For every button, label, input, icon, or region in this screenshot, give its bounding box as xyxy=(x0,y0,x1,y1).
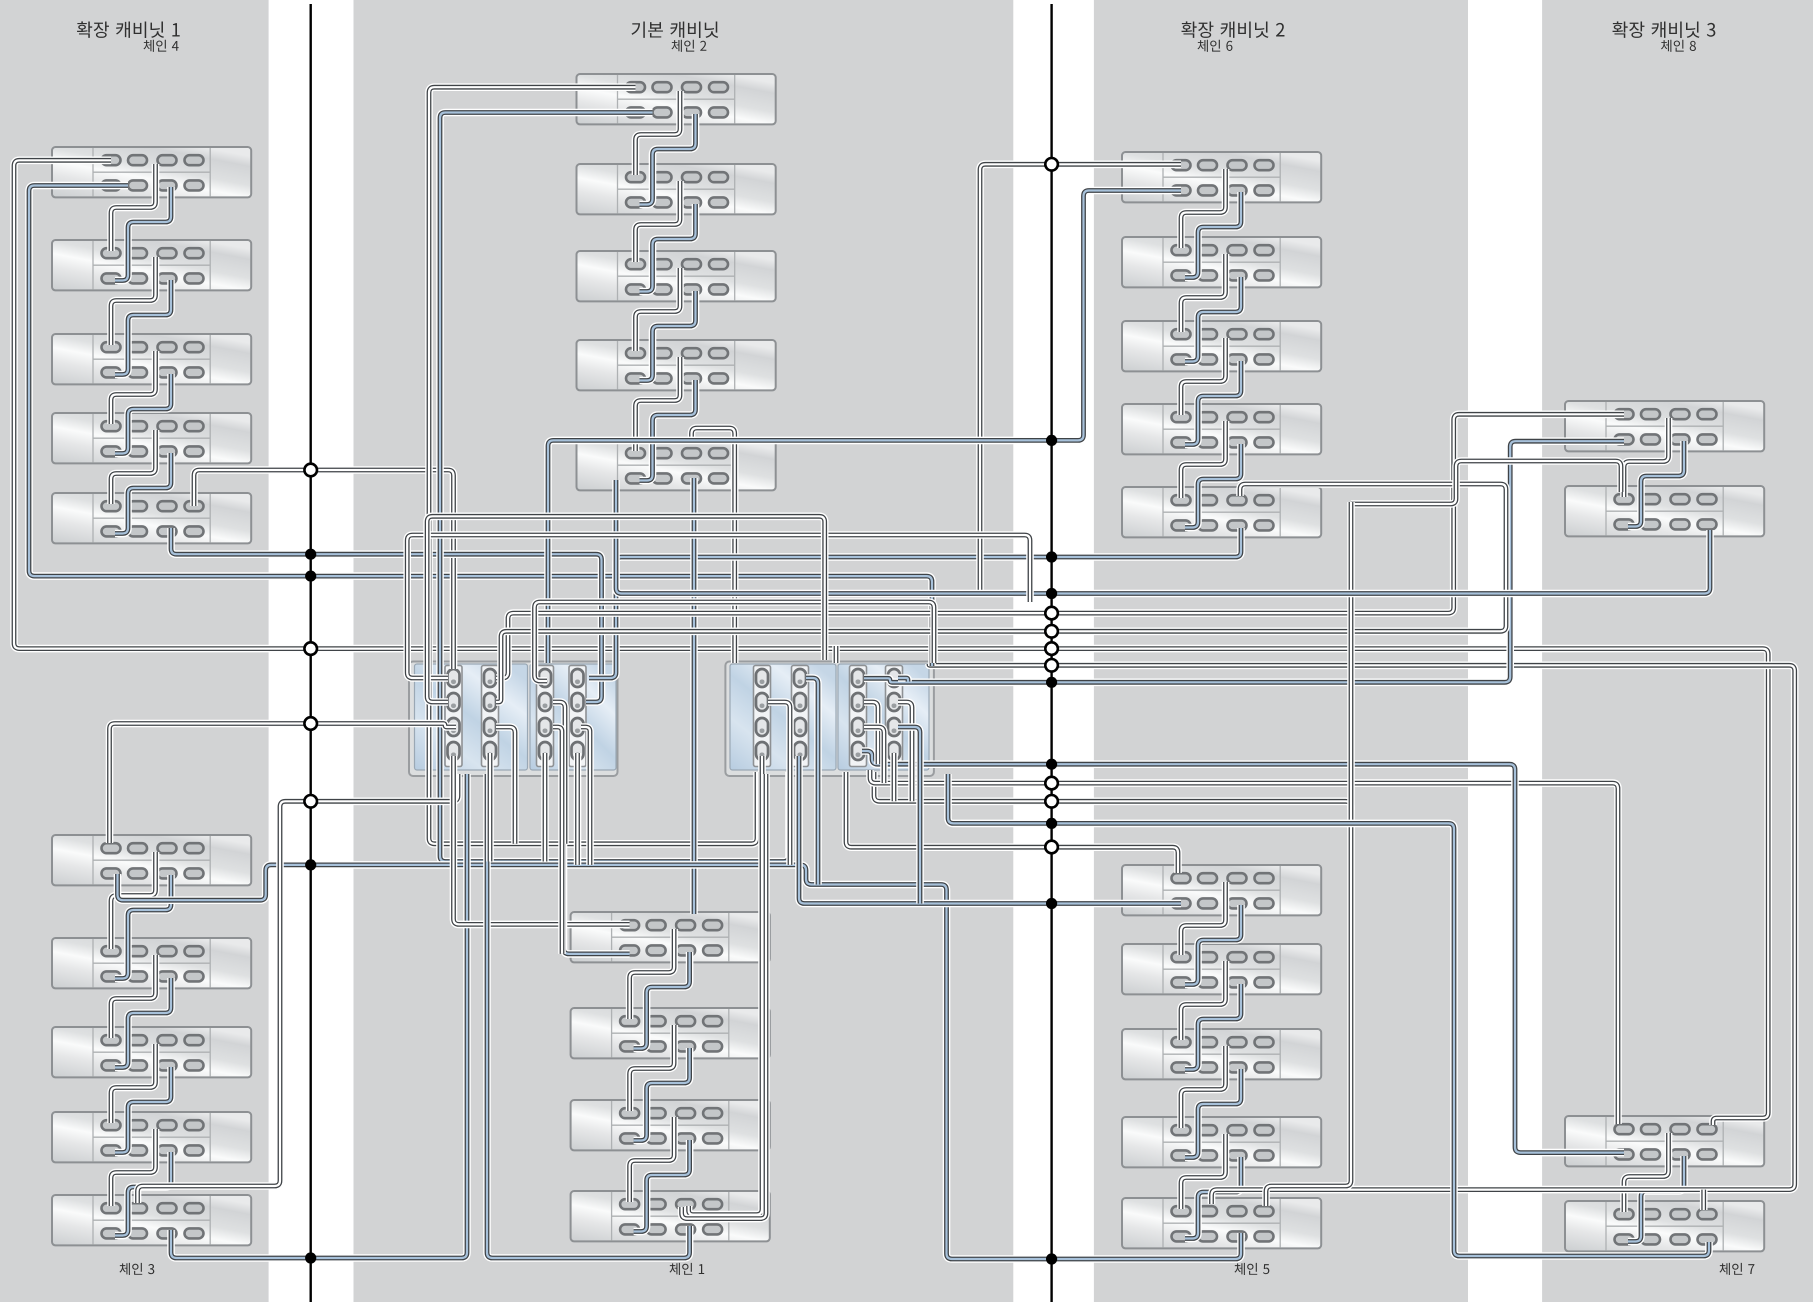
disk shelf P4-T1 xyxy=(1565,401,1764,451)
wire chain4 top B xyxy=(29,186,932,667)
junction filled dot line2 y1259 xyxy=(1046,1253,1057,1264)
cabinet boundary line 1 xyxy=(310,4,312,1302)
controller head 2 xyxy=(725,662,934,777)
disk shelf P3-T5 xyxy=(1122,487,1321,537)
wire chain8 top B xyxy=(864,441,1624,682)
disk shelf P2-B2 xyxy=(571,1008,770,1058)
controller head 1 xyxy=(409,662,618,777)
wire chain5 top A xyxy=(846,772,1178,873)
wire shelf link dark 570.6-1008 xyxy=(630,1025,675,1111)
wire shelf link dark 1122-152 xyxy=(1181,169,1226,248)
wire chain1 top B xyxy=(564,774,630,954)
junction filled dot line2 y440.4 xyxy=(1046,435,1057,446)
wire shelf link dark 576.5-164 xyxy=(636,181,681,262)
wire shelf link blue 52-835 xyxy=(115,875,171,979)
wire chain7 bottom B xyxy=(948,774,1709,1256)
disk shelf P2-T1 xyxy=(577,74,776,124)
wire shelf link dark 52-240 xyxy=(111,257,156,345)
cabinet boundary line 2 xyxy=(1050,4,1052,1302)
wire shelf link blue 1122-404 xyxy=(1185,444,1241,528)
wire shelf link dark 52-147 xyxy=(111,164,156,251)
wire chain3 top B xyxy=(118,865,1242,1259)
disk shelf P3-T2 xyxy=(1122,237,1321,287)
disk shelf P3-T3 xyxy=(1122,321,1321,371)
wire chain7 bottom A spur xyxy=(1700,1190,1708,1210)
disk shelf P3-T4 xyxy=(1122,404,1321,454)
wire port stub S3-r4 xyxy=(541,753,549,862)
wire shelf link blue 1122-1117 xyxy=(1185,1157,1241,1239)
wire chain5 bottom A2 xyxy=(874,772,1351,1206)
disk shelf P4-B2 xyxy=(1565,1201,1764,1251)
wire shelf link blue 52-240 xyxy=(115,280,171,375)
cabinet panel: base cabinet xyxy=(354,0,1014,1302)
label chain3 xyxy=(120,1263,155,1275)
wire shelf link blue 1565-401 xyxy=(1628,441,1684,527)
junction open dot line2 y801.3 xyxy=(1045,795,1058,808)
disk shelf P1-T5 xyxy=(52,493,251,543)
wire shelf link dark 52-413 xyxy=(111,430,156,504)
disk shelf P1-T1 xyxy=(52,147,251,197)
wire chain8 bottom B left xyxy=(616,480,976,594)
junction open dot line2 y648.6 xyxy=(1045,642,1058,655)
wire port stub S4-r4 xyxy=(574,753,582,865)
cabinet panel: expansion cabinet 1 xyxy=(0,0,269,1302)
wire shelf link blue 1122-944 xyxy=(1185,984,1241,1070)
disk shelf P2-B4 xyxy=(571,1191,770,1241)
wire port stub S8-r3 xyxy=(898,727,920,904)
label cab3 chain xyxy=(1661,40,1696,52)
label chain5 xyxy=(1235,1263,1270,1275)
disk shelf P1-B1 xyxy=(52,835,251,885)
wire shelf link dark 576.5-74 xyxy=(636,91,681,175)
disk shelf P1-B2 xyxy=(52,938,251,988)
wire shelf link blue 576.5-74 xyxy=(640,114,696,205)
wire port stub S2-r3 xyxy=(496,727,515,844)
disk shelf P4-T2 xyxy=(1565,486,1764,536)
disk shelf P3-B4 xyxy=(1122,1117,1321,1167)
wire chain7 top A xyxy=(870,770,1618,1124)
wire vert 1351 upper xyxy=(1347,502,1355,810)
wire port stub S8-r2 xyxy=(898,702,912,801)
wire chain1 bottom A2 xyxy=(682,774,766,1219)
wire port stub S6-r1 xyxy=(806,678,818,885)
disk shelf P2-T3 xyxy=(577,251,776,301)
wire chain6 bottom A xyxy=(496,484,1506,702)
label cab1 xyxy=(77,21,180,38)
junction filled dot line1 y554.2 xyxy=(305,549,316,560)
disk shelf P1-B3 xyxy=(52,1027,251,1077)
disk shelf P3-B3 xyxy=(1122,1029,1321,1079)
wire shelf link blue 570.6-912 xyxy=(634,952,690,1049)
wire shelf link dark 1122-237 xyxy=(1181,254,1226,332)
wire shelf link dark 52-1027 xyxy=(111,1044,156,1123)
wire port stub S2-r4 xyxy=(486,753,494,862)
wire shelf link dark 570.6-912 xyxy=(630,929,675,1019)
wire chain8 bottom A2 xyxy=(1351,461,1621,504)
wire chain2 bottom A xyxy=(692,428,735,663)
wire shelf link blue 1122-237 xyxy=(1185,277,1241,362)
junction filled dot line2 y682.3 xyxy=(1046,677,1057,688)
junction open dot line2 y847 xyxy=(1045,841,1058,854)
wire port stub S3-r3 xyxy=(553,727,562,954)
wire chain1 top A xyxy=(454,756,630,924)
wire shelf link blue 1122-1029 xyxy=(1185,1069,1241,1158)
wire port stub S5-r2 xyxy=(768,702,790,865)
wire chain3 bottom B xyxy=(171,774,467,1258)
wire shelf link dark 52-334 xyxy=(111,351,156,424)
wire chain1 bottom B xyxy=(487,774,690,1258)
disk shelf P4-B1 xyxy=(1565,1116,1764,1166)
wire shelf link dark 1122-865 xyxy=(1181,882,1226,955)
wire shelf link blue 52-938 xyxy=(115,978,171,1068)
wire shelf link blue 52-147 xyxy=(115,187,171,281)
junction filled dot line2 y593.5 xyxy=(1046,588,1057,599)
wire port stub S7-r3 xyxy=(864,727,884,783)
wire shelf link dark 1122-944 xyxy=(1181,961,1226,1040)
wire port stub S8-r4 xyxy=(890,753,898,801)
wire shelf link blue 576.5-164 xyxy=(640,204,696,292)
disk shelf P3-T1 xyxy=(1122,152,1321,202)
disk shelf P3-B5 xyxy=(1122,1198,1321,1248)
disk shelf P2-B1 xyxy=(571,912,770,962)
wire cluster link C xyxy=(427,516,825,702)
label cab3 xyxy=(1612,21,1715,38)
disk shelf P2-T5 xyxy=(577,440,776,490)
wire shelf link blue 52-413 xyxy=(115,453,171,534)
wire shelf link dark 52-938 xyxy=(111,955,156,1038)
junction open dot line1 y648.6 xyxy=(304,642,317,655)
wire shelf link blue 1122-152 xyxy=(1185,192,1241,278)
wire shelf link dark 1122-321 xyxy=(1181,338,1226,415)
wire chain6 top A xyxy=(980,164,1181,593)
wire spur 648 to C2 xyxy=(832,646,840,663)
wire chain3 top A xyxy=(110,724,457,844)
cabinet panel: expansion cabinet 3 xyxy=(1542,0,1813,1302)
disk shelf P2-T4 xyxy=(577,340,776,390)
wire chain3 bottom A xyxy=(138,774,459,1203)
junction filled dot line2 y823.4 xyxy=(1046,818,1057,829)
wire chain1 bottom A1 xyxy=(689,756,762,1215)
disk shelf P2-T2 xyxy=(577,164,776,214)
label base chain xyxy=(672,40,707,52)
wire chain4 bottom A xyxy=(194,470,454,669)
disk shelf P1-B5 xyxy=(52,1195,251,1245)
wire port stub S7-r2 xyxy=(864,702,878,764)
junction filled dot line1 y1258 xyxy=(305,1252,316,1263)
wire shelf link dark 576.5-340 xyxy=(636,357,681,451)
wire shelf link dark 1565-401 xyxy=(1624,418,1669,497)
junction open dot line1 y470 xyxy=(304,464,317,477)
wire shelf link blue 1122-865 xyxy=(1185,905,1241,985)
wire chain8 bottom B xyxy=(976,530,1710,594)
wire shelf link blue 52-1027 xyxy=(115,1067,171,1153)
junction open dot line2 y631.3 xyxy=(1045,625,1058,638)
wire shelf link blue 52-334 xyxy=(115,374,171,454)
disk shelf P1-T2 xyxy=(52,240,251,290)
junction open dot line2 y665.3 xyxy=(1045,659,1058,672)
junction open dot line2 y613.1 xyxy=(1045,607,1058,620)
junction filled dot line2 y557 xyxy=(1046,551,1057,562)
wire shelf link dark 1122-1029 xyxy=(1181,1046,1226,1128)
disk shelf P3-B1 xyxy=(1122,865,1321,915)
junction open dot line2 y783.1 xyxy=(1045,777,1058,790)
wire shelf link dark 52-835 xyxy=(111,852,156,949)
wire port stub S4-r3 xyxy=(581,727,590,865)
disk shelf P1-T4 xyxy=(52,413,251,463)
wire shelf link blue 570.6-1008 xyxy=(634,1048,690,1141)
junction open dot line1 y723.5 xyxy=(304,717,317,730)
junction filled dot line1 y864.9 xyxy=(305,859,316,870)
disk shelf P1-B4 xyxy=(52,1112,251,1162)
disk shelf P1-T3 xyxy=(52,334,251,384)
wire chain4 bottom B xyxy=(171,528,602,702)
disk shelf P2-B3 xyxy=(571,1100,770,1150)
wire chain2 top A xyxy=(429,87,757,844)
wire shelf link blue 570.6-1100 xyxy=(634,1140,690,1232)
cabinet panel: expansion cabinet 2 xyxy=(1094,0,1468,1302)
wire shelf link blue 576.5-340 xyxy=(640,380,696,481)
wire cluster link B xyxy=(535,602,935,681)
wire chain7 top B xyxy=(862,751,1624,1153)
wire shelf link dark 1122-1117 xyxy=(1181,1134,1226,1209)
wire shelf link blue 1565-1116 xyxy=(1628,1156,1684,1242)
wire shelf link dark 52-1112 xyxy=(111,1129,156,1206)
wire port stub S3-r2 xyxy=(553,702,565,844)
wire shelf link dark 1122-404 xyxy=(1181,421,1226,498)
wire shelf link dark 1565-1116 xyxy=(1624,1133,1669,1212)
label chain1 xyxy=(670,1263,705,1275)
disk shelf P3-B2 xyxy=(1122,944,1321,994)
wire port stub S8-r1 xyxy=(898,678,908,682)
junction filled dot line1 y576.1 xyxy=(305,571,316,582)
label cab1 chain xyxy=(144,40,179,52)
wire shelf link blue 52-1112 xyxy=(115,1152,171,1236)
wire chain5 top B xyxy=(799,756,1181,904)
wire chain4 top A xyxy=(14,160,1768,1125)
junction open dot line1 y801.3 xyxy=(304,795,317,808)
label cab2 chain xyxy=(1198,40,1233,52)
junction filled dot line2 y903.5 xyxy=(1046,898,1057,909)
label cab2 xyxy=(1181,21,1284,38)
junction filled dot line2 y764.2 xyxy=(1046,759,1057,770)
wire chain5 bottom A xyxy=(929,664,1795,1204)
wire chain2 bottom B xyxy=(589,528,1241,678)
wire cluster link A xyxy=(407,535,1030,678)
wire P2 T5-B1 direct xyxy=(690,478,698,914)
wire shelf link dark 576.5-251 xyxy=(636,268,681,351)
wire shelf link blue 576.5-251 xyxy=(640,291,696,381)
wire chain8 top A xyxy=(496,414,1624,678)
label cab base xyxy=(632,21,719,37)
label chain7 xyxy=(1720,1263,1755,1275)
wire chain6 top B xyxy=(548,191,1181,664)
wire shelf link dark 570.6-1100 xyxy=(630,1117,675,1202)
wire chain2 top B xyxy=(440,113,789,862)
wire shelf link blue 1122-321 xyxy=(1185,361,1241,445)
junction open dot line2 y164.3 xyxy=(1045,158,1058,171)
